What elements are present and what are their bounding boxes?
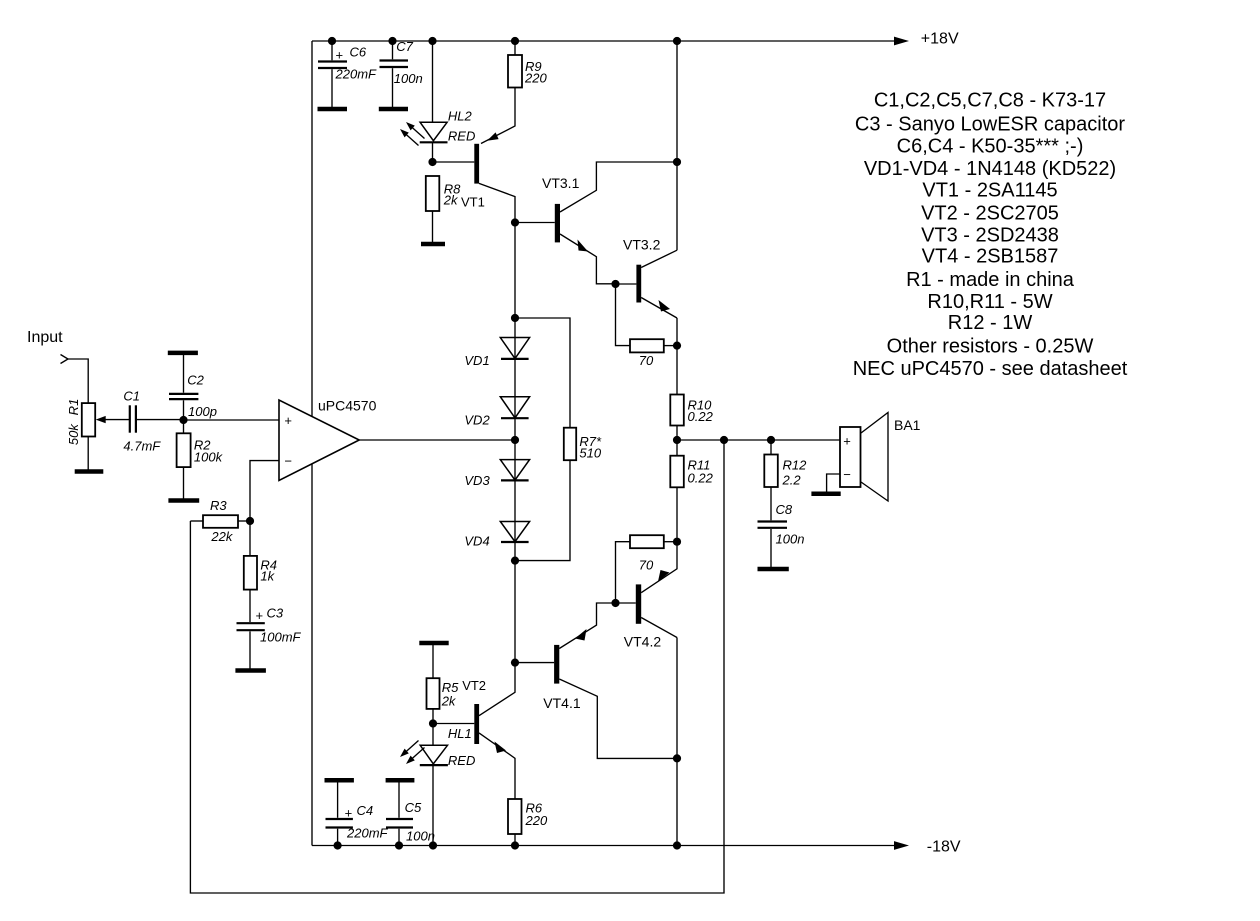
svg-text:+: + (336, 48, 344, 63)
svg-text:VD3: VD3 (464, 473, 490, 488)
svg-text:100mF: 100mF (260, 630, 302, 645)
LED HL1 (400, 724, 475, 846)
node junction C4/bottom-rail (334, 841, 342, 849)
ground below C6 (318, 107, 348, 112)
node junction chain/R7-bottom (511, 557, 519, 565)
node junction chain/op-amp-output (511, 436, 519, 444)
notes text block (853, 90, 1128, 381)
LED HL2 (400, 41, 475, 162)
svg-text:2k: 2k (443, 193, 459, 208)
svg-text:70: 70 (639, 353, 654, 368)
svg-text:+: + (345, 806, 353, 821)
wire non-inverting input (184, 419, 280, 421)
node junction HL2/R8/VT1-base (428, 158, 436, 166)
capacitor C2 (168, 353, 217, 420)
node junction diode-chain/VT4.1-base/VT2-collector (511, 659, 519, 667)
node junction C5/bottom-rail (395, 841, 403, 849)
node junction R6/bottom-rail (511, 841, 519, 849)
svg-text:VT2 - 2SC2705: VT2 - 2SC2705 (921, 203, 1059, 225)
svg-text:VT4.1: VT4.1 (543, 695, 581, 711)
ground below C3 (235, 668, 266, 673)
resistor R2 (177, 420, 224, 499)
svg-text:510: 510 (579, 445, 601, 460)
svg-text:VT3 - 2SD2438: VT3 - 2SD2438 (921, 225, 1059, 247)
node junction feedback/output-rail (720, 436, 728, 444)
capacitor C3 (237, 605, 302, 668)
wire -rail column x=677 lower (676, 638, 678, 846)
svg-text:-18V: -18V (927, 838, 961, 855)
capacitor C5 (386, 780, 435, 845)
diode VD3 (464, 460, 529, 488)
diode VD2 (464, 397, 529, 428)
svg-text:VD1-VD4 - 1N4148 (KD522): VD1-VD4 - 1N4148 (KD522) (864, 158, 1116, 180)
resistor R3 (190, 498, 250, 544)
svg-text:VD4: VD4 (464, 534, 489, 549)
node -18V arrow (894, 841, 909, 850)
svg-text:R10,R11 - 5W: R10,R11 - 5W (927, 291, 1052, 313)
wire VT3.2 emitter to R10 (676, 318, 678, 395)
resistor R9 (508, 41, 547, 88)
svg-text:1k: 1k (260, 569, 275, 584)
svg-text:Other resistors - 0.25W: Other resistors - 0.25W (887, 336, 1094, 358)
svg-text:NEC uPC4570 - see datasheet: NEC uPC4570 - see datasheet (853, 358, 1128, 380)
node junction R3/R4/-input (246, 517, 254, 525)
svg-text:220mF: 220mF (335, 66, 378, 81)
svg-text:C3: C3 (267, 605, 284, 620)
node junction C6/top-rail (328, 37, 336, 45)
resistor 70 (upper) (616, 284, 678, 368)
node Input terminal (27, 329, 68, 364)
node junction VT1-collector/VT3.1-base (511, 218, 519, 226)
svg-text:+: + (843, 433, 851, 448)
ground below C7 (379, 107, 408, 112)
node junction VT4.1-collector/x677 (673, 754, 681, 762)
resistor R6 (508, 799, 548, 846)
resistor 70 (lower) (616, 535, 678, 603)
svg-text:4.7mF: 4.7mF (123, 438, 161, 453)
potentiometer R1 (66, 399, 129, 470)
ground below C8 (758, 567, 789, 572)
wire +rail column x=677 upper (676, 41, 678, 250)
wire op-amp output to diode chain (359, 439, 515, 441)
node junction 70lower/VT4.2-emitter/R11 (673, 538, 681, 546)
node junction C7/top-rail (388, 37, 396, 45)
node junction HL1/bottom-rail (429, 841, 437, 849)
svg-text:2.2: 2.2 (782, 473, 802, 488)
wire inverting input (250, 461, 279, 521)
diode VD4 (464, 522, 529, 549)
transistor VT4.1 (515, 603, 677, 758)
svg-text:100p: 100p (188, 404, 217, 419)
svg-text:220: 220 (525, 813, 548, 828)
transistor VT3.1 (515, 162, 676, 284)
svg-text:−: − (284, 453, 292, 468)
resistor R11 (670, 440, 713, 542)
wire input to R1 (68, 359, 88, 403)
svg-text:VT3.1: VT3.1 (542, 175, 580, 191)
svg-text:C3 - Sanyo LowESR capacitor: C3 - Sanyo LowESR capacitor (855, 113, 1125, 135)
svg-text:VT4.2: VT4.2 (624, 633, 662, 649)
svg-text:BA1: BA1 (894, 417, 921, 433)
capacitor C7 (380, 39, 423, 107)
resistor R8 (426, 176, 461, 243)
transistor VT3.2 (616, 236, 678, 318)
svg-text:22k: 22k (210, 529, 233, 544)
capacitor C1 (123, 389, 183, 454)
diode VD1 (464, 338, 529, 368)
wire diode-chain upper (514, 223, 516, 561)
ground below R1 (75, 469, 104, 474)
op-amp U1 uPC4570 (279, 398, 377, 481)
svg-text:R12: R12 (783, 458, 808, 473)
wire left supply rail vertical x=312 (311, 41, 313, 846)
svg-text:100k: 100k (194, 449, 224, 464)
node junction R12/output (767, 436, 775, 444)
capacitor C4 (325, 780, 389, 845)
svg-text:RED: RED (448, 129, 475, 144)
node junction C1/C2/R2/+input (179, 416, 187, 424)
svg-text:C1: C1 (123, 389, 140, 404)
svg-text:+: + (256, 608, 264, 623)
speaker BA1 (827, 413, 921, 502)
node junction R9/top-rail (511, 37, 519, 45)
svg-text:uPC4570: uPC4570 (318, 398, 377, 414)
svg-text:50k: 50k (66, 423, 81, 445)
node junction VT3.1-emitter/VT3.2-base (611, 280, 619, 288)
svg-text:VT1: VT1 (461, 195, 485, 210)
svg-text:0.22: 0.22 (688, 471, 714, 486)
node junction chain/R7-top (511, 314, 519, 322)
svg-text:C4: C4 (357, 803, 374, 818)
node junction VT3.1-collector/+rail-column (673, 158, 681, 166)
svg-text:220mF: 220mF (346, 826, 389, 841)
svg-text:220: 220 (524, 71, 547, 86)
wire chain lower to VT4.1 base (514, 561, 516, 663)
capacitor C8 (758, 502, 805, 567)
transistor VT1 (433, 88, 516, 223)
svg-text:C1,C2,C5,C7,C8 - K73-17: C1,C2,C5,C7,C8 - K73-17 (874, 90, 1106, 112)
node junction VT4.1-emitter/VT4.2-base (611, 599, 619, 607)
svg-text:C2: C2 (187, 373, 204, 388)
node junction R5/HL1/VT2-base (429, 719, 437, 727)
node junction HL2/top-rail (428, 37, 436, 45)
svg-text:Input: Input (27, 329, 63, 346)
wire output rail to speaker (677, 439, 840, 441)
node junction x677/top-rail (673, 37, 681, 45)
svg-text:0.22: 0.22 (688, 409, 714, 424)
svg-text:C7: C7 (396, 39, 413, 54)
svg-text:VT1 - 2SA1145: VT1 - 2SA1145 (922, 180, 1057, 202)
svg-text:100n: 100n (406, 828, 435, 843)
node junction 70upper/VT3.2-emitter (673, 342, 681, 350)
svg-text:HL2: HL2 (448, 108, 473, 123)
svg-text:70: 70 (639, 558, 654, 573)
svg-text:VT2: VT2 (462, 678, 486, 693)
svg-text:VT4 - 2SB1587: VT4 - 2SB1587 (922, 245, 1059, 267)
svg-text:C5: C5 (405, 800, 422, 815)
svg-text:RED: RED (448, 753, 475, 768)
svg-text:VT3.2: VT3.2 (623, 236, 661, 252)
svg-text:−: − (843, 467, 851, 482)
capacitor C6 (318, 41, 377, 107)
svg-text:VD1: VD1 (464, 353, 489, 368)
svg-text:100n: 100n (776, 532, 805, 547)
svg-text:R1: R1 (66, 399, 81, 416)
wire +18V top rail (312, 40, 896, 42)
svg-text:C8: C8 (776, 502, 793, 517)
ground below R8 (421, 242, 445, 247)
svg-text:C6: C6 (350, 44, 367, 59)
wire feedback loop (190, 440, 724, 893)
svg-text:R3: R3 (210, 498, 227, 513)
svg-text:VD2: VD2 (464, 413, 490, 428)
node junction x677/bottom-rail (673, 841, 681, 849)
node +18V arrow (894, 37, 909, 46)
svg-text:2k: 2k (441, 694, 457, 709)
resistor R5 (419, 643, 459, 724)
svg-text:C6,C4 - K50-35*** ;-): C6,C4 - K50-35*** ;-) (897, 135, 1084, 157)
node junction R10/R11/output (673, 436, 681, 444)
transistor VT4.2 (616, 542, 677, 650)
svg-text:+: + (284, 413, 292, 428)
transistor VT2 (433, 663, 515, 799)
ground at speaker minus (811, 492, 840, 497)
svg-text:HL1: HL1 (448, 726, 472, 741)
svg-text:R12 - 1W: R12 - 1W (948, 312, 1033, 334)
resistor R4 (244, 521, 277, 622)
svg-text:R1 - made in china: R1 - made in china (906, 269, 1075, 291)
ground below R2 (168, 498, 199, 503)
resistor R7 (515, 318, 602, 561)
wire -18V bottom rail (312, 845, 896, 847)
svg-text:100n: 100n (394, 71, 423, 86)
resistor R12 (764, 440, 807, 520)
resistor R10 (670, 395, 713, 441)
svg-text:+18V: +18V (921, 30, 959, 47)
